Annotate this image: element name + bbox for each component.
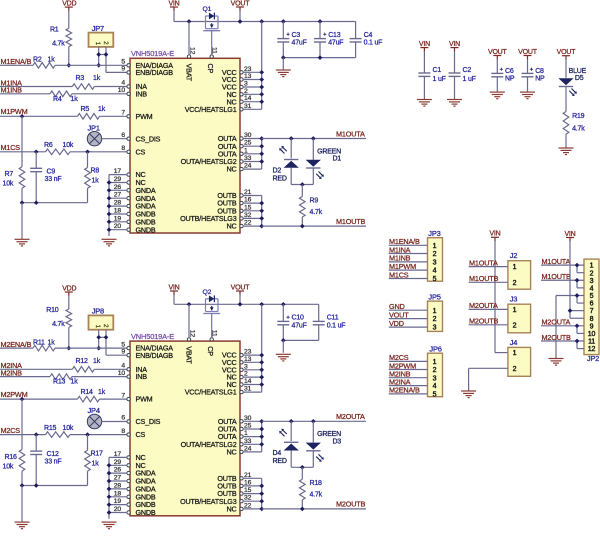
resistor R18 4.7k: [300, 467, 323, 509]
wire M2CS to pin8: [70, 434, 127, 436]
junction jumper tie right: [104, 52, 109, 57]
wire M1INA to pin4: [94, 86, 127, 88]
svg-text:D5: D5: [575, 75, 584, 82]
junction M1ENA/B-R pullup: [66, 63, 71, 68]
wire cap gnd drop: [282, 58, 284, 70]
wire LED bottom tie: [291, 466, 313, 468]
wire M2ENA/B to pin5: [55, 347, 127, 349]
resistor R9 4.7k: [300, 185, 323, 227]
LED D1 GREEN: [306, 139, 342, 185]
capacitor C11 0.1uF: [313, 304, 346, 340]
capacitor C12 33nF: [30, 435, 61, 486]
wire VBAT drop: [188, 22, 190, 56]
wire main rail: [174, 303, 319, 305]
connector JP6: [428, 345, 443, 397]
svg-text:M2OUTA: M2OUTA: [336, 412, 365, 421]
svg-text:4.7k: 4.7k: [52, 40, 65, 47]
svg-text:2: 2: [433, 316, 437, 323]
svg-text:1: 1: [513, 307, 517, 314]
svg-text:5: 5: [121, 341, 125, 348]
svg-text:R9: R9: [310, 197, 319, 204]
svg-text:3: 3: [433, 325, 437, 332]
svg-text:10k: 10k: [63, 425, 74, 432]
wire M2INB left: [0, 376, 50, 378]
svg-text:M1PWM: M1PWM: [1, 107, 28, 116]
svg-text:C10: C10: [292, 315, 305, 322]
svg-text:NC: NC: [227, 222, 237, 231]
ground filter: [15, 239, 30, 246]
svg-text:VIN: VIN: [419, 41, 430, 48]
svg-text:R11: R11: [33, 339, 45, 346]
svg-text:4: 4: [121, 363, 125, 370]
svg-text:8: 8: [121, 145, 125, 152]
net M2OUTB to J3: [469, 317, 517, 330]
wire M2INB to pin10: [72, 376, 127, 378]
svg-text:6: 6: [121, 415, 125, 422]
svg-text:10k: 10k: [3, 181, 14, 188]
svg-text:1 uF: 1 uF: [433, 76, 446, 83]
net M2OUTB wire: [262, 508, 366, 510]
wire OUTA bus: [243, 419, 264, 452]
wire IC ground bus: [107, 457, 128, 518]
svg-text:VIN: VIN: [449, 41, 460, 48]
resistor R6 10k: [44, 142, 74, 154]
wire JP7 pin1 stub: [98, 47, 100, 65]
svg-text:VCC/HEATSLG1: VCC/HEATSLG1: [185, 105, 237, 114]
net M2OUTA wire: [262, 420, 366, 422]
svg-text:JP8: JP8: [92, 307, 104, 316]
junction capline C10: [281, 338, 286, 343]
IC pin names: [136, 344, 237, 517]
capacitor C13 47uF: [314, 22, 343, 58]
junction M2OUTB R: [300, 507, 305, 512]
junction capline C3: [281, 55, 286, 60]
svg-text:JP2: JP2: [587, 354, 599, 363]
svg-text:10k: 10k: [63, 142, 74, 149]
junction OUTA D green: [311, 419, 316, 424]
junction capline C13: [318, 55, 323, 60]
resistor R14 1k: [78, 389, 106, 402]
svg-text:3: 3: [433, 260, 437, 267]
ground R19: [559, 148, 574, 155]
wire OUTB bus: [243, 196, 264, 229]
svg-text:11: 11: [588, 339, 595, 346]
IC U2 VNH5019A-E motor driver: [130, 332, 240, 516]
svg-text:47uF: 47uF: [292, 322, 307, 329]
svg-text:C1: C1: [433, 67, 442, 74]
wire M2PWM left: [0, 398, 78, 400]
wire IC ground bus: [107, 175, 128, 236]
svg-text:NC: NC: [227, 505, 237, 514]
svg-text:JP5: JP5: [428, 293, 440, 302]
wire JP8 pin2 stub: [105, 330, 107, 356]
wire JP2 gnd pins: [556, 293, 584, 358]
junction rail VCC bus: [259, 19, 264, 24]
svg-text:2: 2: [433, 367, 437, 374]
net M1OUTB wire: [262, 225, 366, 227]
junction jumper tie left: [96, 52, 101, 57]
svg-text:R14: R14: [81, 389, 94, 396]
svg-text:6: 6: [121, 132, 125, 139]
wire JP8 pin1 stub: [98, 330, 100, 348]
jumper JP8: [89, 307, 114, 330]
junction gnd line C9: [34, 483, 39, 488]
power flag VOUT C8: [518, 49, 538, 60]
svg-text:JP3: JP3: [428, 229, 440, 238]
wire cap ground line: [283, 57, 355, 59]
capacitor C3 47uF: [277, 22, 306, 58]
svg-text:5: 5: [433, 392, 437, 399]
junction OUTA D red: [289, 136, 294, 141]
junction OUTA D green: [311, 136, 316, 141]
junction rail VCC bus: [259, 302, 264, 307]
transistor Q2: [203, 289, 221, 338]
svg-text:33 nF: 33 nF: [45, 176, 62, 183]
svg-text:0.1 uF: 0.1 uF: [327, 322, 346, 329]
svg-text:4.7k: 4.7k: [310, 209, 323, 216]
wire OUTB bus: [243, 478, 264, 511]
svg-text:VBAT: VBAT: [185, 346, 194, 364]
svg-text:C12: C12: [47, 451, 60, 458]
junction M2PWM-R pulldown: [20, 397, 25, 402]
svg-text:1k: 1k: [98, 106, 106, 113]
svg-text:1: 1: [590, 263, 594, 270]
wire M2INA left: [0, 368, 72, 370]
svg-text:M1OUTA: M1OUTA: [469, 258, 498, 267]
wire M2CS left: [0, 434, 46, 436]
svg-text:4: 4: [433, 268, 437, 275]
wire M1CS left: [0, 151, 46, 153]
svg-text:INB: INB: [136, 89, 148, 98]
svg-text:VDD: VDD: [62, 1, 76, 8]
solder jumper JP1: [87, 123, 101, 146]
wire JP4 to CS_DIS: [102, 421, 128, 423]
svg-text:4: 4: [590, 285, 594, 292]
svg-text:VOUT: VOUT: [518, 49, 538, 56]
svg-text:1: 1: [513, 350, 517, 357]
svg-text:VIN: VIN: [168, 0, 179, 7]
junction M2ENA/B-jumper: [96, 346, 101, 351]
wire VCC bus: [243, 22, 264, 110]
svg-text:9: 9: [121, 348, 125, 355]
wire M2INA to pin4: [94, 368, 127, 370]
svg-text:R1: R1: [50, 26, 59, 33]
svg-text:VIN: VIN: [168, 284, 179, 291]
svg-text:M2OUTA: M2OUTA: [542, 318, 571, 327]
svg-text:5: 5: [121, 59, 125, 66]
connector JP3 pins and nets: [389, 237, 437, 283]
svg-text:RED: RED: [273, 175, 287, 182]
resistor R7 10k: [3, 116, 25, 202]
svg-text:VDD: VDD: [62, 285, 76, 292]
svg-text:R15: R15: [44, 425, 57, 432]
net M1OUTA to J2: [469, 258, 517, 271]
svg-text:7: 7: [121, 110, 125, 117]
junction LED tie R: [300, 182, 305, 187]
junction rail VOUT: [238, 19, 243, 24]
svg-text:GNDB: GNDB: [136, 225, 156, 234]
svg-text:NC: NC: [227, 448, 237, 457]
connector JP5: [428, 293, 443, 332]
resistor R1 4.7k: [50, 10, 72, 65]
svg-text:0.1 uF: 0.1 uF: [364, 40, 383, 47]
connector J3: [508, 295, 531, 333]
resistor R3 1k: [72, 75, 100, 89]
svg-text:J3: J3: [510, 295, 518, 304]
svg-text:2: 2: [513, 322, 517, 329]
wire cap ground line: [283, 339, 318, 341]
capacitor C6 NP: [491, 59, 515, 92]
svg-text:1k: 1k: [48, 339, 56, 346]
power flag VIN J column: [489, 231, 500, 242]
resistor R17 1k: [85, 435, 103, 486]
power flag VOUT rail (M1): [231, 0, 251, 11]
resistor R2 1k: [33, 57, 55, 69]
wire VIN to JP2: [568, 241, 584, 318]
svg-text:1 uF: 1 uF: [463, 76, 476, 83]
net M2PWM label: [1, 390, 28, 399]
svg-text:VIN: VIN: [489, 231, 500, 238]
connector J2: [508, 251, 531, 289]
wire M1PWM to pin7: [100, 115, 128, 117]
wire M1ENA/B to pin5: [55, 64, 127, 66]
svg-text:1k: 1k: [48, 57, 56, 64]
junction rail C filter: [281, 302, 286, 307]
IC U1 VNH5019A-E motor driver: [130, 49, 240, 233]
junction M1ENA/B-jumper: [96, 63, 101, 68]
svg-text:C4: C4: [364, 32, 373, 39]
svg-text:2: 2: [433, 251, 437, 258]
svg-text:9: 9: [590, 323, 594, 330]
wire VIN stub: [173, 11, 175, 22]
ground C1: [417, 100, 432, 107]
transistor Q1: [203, 6, 221, 55]
power flag VIN rail (M2): [168, 284, 179, 295]
jumper JP7: [89, 24, 114, 47]
svg-text:4.7k: 4.7k: [572, 126, 585, 133]
svg-text:3: 3: [433, 375, 437, 382]
junction M2CS-C filter: [34, 432, 39, 437]
wire OUTA bus: [243, 136, 264, 169]
LED D4 RED: [273, 421, 299, 467]
connector JP6 pins and nets: [389, 353, 437, 398]
svg-text:J4: J4: [510, 338, 518, 347]
junction gnd line R7: [20, 200, 25, 205]
capacitor C1 1uF: [418, 51, 445, 100]
svg-text:1: 1: [433, 308, 437, 315]
LED D5 BLUE: [558, 59, 586, 112]
resistor R11 1k: [33, 339, 55, 351]
svg-text:INB: INB: [136, 372, 148, 381]
svg-text:M2OUTB: M2OUTB: [542, 333, 572, 342]
LED D3 GREEN: [306, 421, 342, 467]
net M1OUTB to J2: [469, 274, 517, 287]
LED D2 RED: [273, 139, 299, 185]
svg-text:M2PWM: M2PWM: [1, 390, 28, 399]
svg-text:VOUT: VOUT: [557, 49, 577, 56]
svg-text:GREEN: GREEN: [317, 431, 341, 438]
net M2OUTA to J3: [469, 301, 517, 314]
svg-text:4.7k: 4.7k: [310, 492, 323, 499]
svg-text:R10: R10: [46, 307, 59, 314]
wire main rail: [174, 21, 356, 23]
net M2CS label: [1, 426, 21, 435]
capacitor C8 NP: [522, 59, 546, 92]
svg-text:PWM: PWM: [136, 395, 153, 404]
svg-text:M2OUTB: M2OUTB: [469, 317, 499, 326]
svg-text:9: 9: [121, 66, 125, 73]
wire JP7 tie bar: [99, 54, 106, 56]
resistor R19 4.7k: [563, 112, 585, 149]
resistor R15 10k: [44, 425, 74, 437]
wire M1CS to pin8: [70, 151, 127, 153]
capacitor C9 33nF: [30, 152, 61, 203]
junction rail C13: [318, 19, 323, 24]
wire VOUT stub: [239, 11, 241, 22]
svg-text:CS: CS: [136, 147, 146, 156]
net M2OUTA to JP2: [541, 318, 584, 334]
resistor R10 4.7k: [46, 295, 71, 348]
svg-text:JP7: JP7: [92, 24, 104, 33]
svg-text:M2ENA/B: M2ENA/B: [389, 386, 420, 395]
connector JP2: [584, 259, 599, 363]
connector JP3: [428, 229, 443, 281]
svg-text:C3: C3: [292, 32, 301, 39]
junction gnd line C9: [34, 200, 39, 205]
svg-text:Q2: Q2: [203, 289, 212, 296]
net M1OUTB label: [336, 217, 366, 226]
svg-text:VOUT: VOUT: [231, 0, 251, 7]
svg-text:R12: R12: [76, 358, 89, 365]
connector JP2 numbers: [588, 263, 596, 354]
wire VBAT drop: [188, 304, 190, 338]
junction gnd line R7: [20, 483, 25, 488]
svg-text:NP: NP: [505, 76, 515, 83]
capacitor C2 1uF: [449, 51, 476, 100]
svg-text:R16: R16: [5, 454, 18, 461]
svg-text:4: 4: [121, 80, 125, 87]
svg-text:1k: 1k: [93, 75, 101, 82]
ground C2: [447, 100, 462, 107]
svg-text:5: 5: [433, 276, 437, 283]
svg-text:C6: C6: [505, 68, 514, 75]
junction rail VBAT: [187, 302, 192, 307]
svg-text:M1OUTA: M1OUTA: [542, 257, 571, 266]
wire VOUT stub: [239, 295, 241, 305]
wire filter ground line: [22, 202, 88, 204]
connector J4 pin1 number: [513, 350, 517, 357]
svg-text:1: 1: [513, 264, 517, 271]
svg-text:RED: RED: [273, 458, 287, 465]
svg-text:BLUE: BLUE: [569, 68, 587, 75]
junction LED tie R: [300, 465, 305, 470]
net M2INA label: [1, 361, 23, 370]
svg-text:1: 1: [433, 359, 437, 366]
ground caps: [276, 354, 291, 361]
capacitor C4 0.1uF: [350, 22, 383, 58]
svg-text:C2: C2: [463, 67, 472, 74]
net M1CS label: [1, 143, 21, 152]
wire gnd drop: [21, 203, 23, 240]
svg-text:JP1: JP1: [88, 123, 100, 132]
resistor R8 1k: [85, 152, 100, 203]
power flag VIN JP2: [564, 231, 575, 242]
svg-text:C11: C11: [327, 315, 339, 322]
svg-text:D4: D4: [273, 450, 282, 457]
net M1ENA/B label: [1, 57, 32, 66]
junction rail C filter: [281, 19, 286, 24]
wire M2PWM to pin7: [100, 398, 128, 400]
wire VIN to J4: [495, 241, 508, 353]
ground C8: [520, 92, 535, 99]
svg-text:JP4: JP4: [88, 406, 100, 415]
net M2OUTB to JP2: [541, 333, 584, 349]
svg-text:10k: 10k: [3, 463, 14, 470]
svg-text:M1OUTB: M1OUTB: [542, 272, 572, 281]
power flag VIN rail (M1): [168, 0, 179, 11]
net M2OUTB label: [336, 500, 366, 509]
svg-text:4.7k: 4.7k: [52, 321, 65, 328]
wire JP1 to CS_DIS: [102, 138, 128, 140]
svg-text:GNDB: GNDB: [136, 508, 156, 517]
svg-text:1: 1: [433, 243, 437, 250]
svg-text:2: 2: [513, 280, 517, 287]
power flag VDD (M1): [62, 1, 76, 12]
svg-text:PWM: PWM: [136, 112, 153, 121]
net M1INB label: [1, 86, 23, 95]
svg-text:D1: D1: [332, 156, 341, 163]
svg-text:ENB/DIAGB: ENB/DIAGB: [136, 351, 174, 360]
svg-text:10: 10: [588, 331, 596, 338]
ground IC bus: [102, 522, 117, 529]
IC pin names: [136, 61, 237, 234]
net M1OUTA label: [336, 129, 365, 138]
junction M1OUTB R: [300, 224, 305, 229]
svg-text:2: 2: [513, 366, 517, 373]
svg-text:D2: D2: [273, 167, 282, 174]
net M1OUTA to JP2: [541, 257, 584, 273]
svg-text:R13: R13: [53, 379, 66, 386]
svg-text:8: 8: [121, 428, 125, 435]
junction M1CS-R8: [85, 149, 90, 154]
net M1OUTA wire: [262, 138, 366, 140]
junction rail VOUT: [238, 302, 243, 307]
svg-text:NP: NP: [535, 76, 545, 83]
power flag VOUT rail (M2): [231, 284, 251, 295]
svg-text:1k: 1k: [92, 178, 100, 185]
svg-text:10: 10: [118, 87, 126, 94]
wire cap gnd drop: [282, 340, 284, 352]
ground filter: [15, 522, 30, 529]
svg-text:R5: R5: [81, 106, 90, 113]
svg-text:VBAT: VBAT: [185, 64, 194, 82]
svg-text:M1OUTB: M1OUTB: [469, 274, 499, 283]
svg-text:R3: R3: [76, 75, 85, 82]
power flag VIN C1: [419, 41, 430, 52]
net M1INA label: [1, 78, 23, 87]
resistor R4 1k: [50, 91, 78, 103]
resistor R16 10k: [3, 399, 25, 485]
svg-text:R2: R2: [33, 57, 42, 64]
wire gnd drop: [21, 486, 23, 523]
svg-text:R7: R7: [5, 171, 14, 178]
ground JP2: [549, 359, 564, 366]
junction jumper tie right: [104, 335, 109, 340]
net M2ENA/B label: [1, 340, 32, 349]
net M2OUTA label: [336, 412, 365, 421]
wire JP8 tie bar: [99, 336, 106, 338]
wire M1INB to pin10: [72, 93, 127, 95]
